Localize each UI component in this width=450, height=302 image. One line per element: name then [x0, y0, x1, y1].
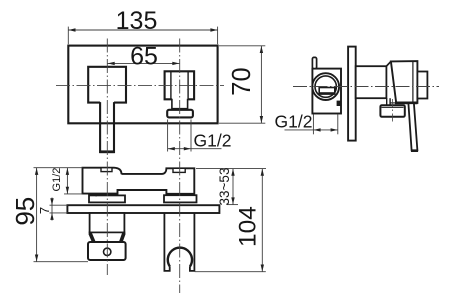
- handle trapezoid neck: [90, 233, 125, 243]
- dimension G1/2 front outlet: [168, 120, 222, 152]
- dimension G1/2 bottom inlet: [64, 168, 83, 194]
- neck dark side left: [90, 233, 94, 242]
- wall plate front rectangle: [68, 46, 217, 124]
- centerline vertical outlet axis: [179, 39, 181, 294]
- dimension G1/2 side: [285, 115, 338, 135]
- svg-text:7: 7: [37, 207, 52, 214]
- shower holder right wall: [190, 213, 195, 271]
- cartridge ring outer: [312, 73, 339, 100]
- svg-text:135: 135: [116, 7, 158, 35]
- wall plate bottom view: [67, 205, 219, 213]
- dimension 65: [108, 62, 180, 64]
- dimension 104: [195, 169, 266, 272]
- lever side thick foot: [411, 150, 418, 152]
- dimension 33~53: [196, 169, 266, 205]
- nut centerline: [392, 99, 394, 124]
- left inlet notch: [101, 168, 112, 172]
- dimension 70: [219, 46, 265, 123]
- svg-text:95: 95: [10, 197, 40, 226]
- neck dark side right: [121, 233, 124, 242]
- cartridge ring inner: [315, 76, 336, 97]
- handle grip: [88, 242, 126, 260]
- svg-text:65: 65: [130, 43, 158, 71]
- escutcheon plate side: [348, 47, 356, 141]
- shower outlet nut side: [380, 105, 404, 117]
- right flange: [164, 195, 197, 202]
- svg-text:70: 70: [228, 67, 256, 95]
- outlet inner line left: [170, 72, 172, 99]
- lever side: [408, 103, 417, 150]
- limiter block in cartridge: [319, 88, 335, 94]
- centerline vertical handle axis: [106, 39, 108, 276]
- dimension 95: [34, 168, 89, 262]
- handle sleeve: [90, 213, 125, 233]
- dimension 7 plate thickness: [50, 198, 68, 221]
- svg-text:G1/2: G1/2: [51, 168, 63, 192]
- seal black square: [337, 101, 342, 106]
- right inlet notch: [173, 168, 185, 172]
- shower body cylinder: [356, 66, 387, 98]
- shower holder left wall: [164, 213, 169, 271]
- hub thick base: [395, 102, 417, 105]
- centerline horizontal side view: [293, 86, 439, 88]
- svg-text:G1/2: G1/2: [275, 112, 313, 132]
- chamfer line cylinder to hub: [386, 61, 391, 66]
- hub end cap: [417, 72, 427, 99]
- body bottom step wedge: [93, 194, 97, 197]
- nut inner line: [382, 106, 404, 108]
- shower holder C ring: [168, 248, 192, 267]
- outlet square with collar opening: [165, 71, 195, 99]
- handle square with lever neck: [88, 67, 126, 103]
- centerline horizontal front view: [56, 84, 224, 86]
- grip screw hole: [104, 248, 111, 255]
- left flange: [89, 195, 125, 202]
- handle lever front: [100, 102, 114, 152]
- handle hub wedge: [391, 61, 418, 103]
- dimension 135: [68, 27, 217, 45]
- shower outlet connector lines: [386, 98, 388, 105]
- svg-text:104: 104: [234, 206, 261, 247]
- hub facet line: [412, 61, 414, 103]
- outlet inner line right: [187, 72, 189, 99]
- outlet step line: [390, 102, 401, 104]
- outlet collar: [172, 99, 188, 109]
- svg-text:G1/2: G1/2: [194, 130, 232, 150]
- body silhouette bottom view: [83, 168, 195, 194]
- svg-text:33~53: 33~53: [217, 168, 232, 206]
- body top tab: [312, 57, 316, 68]
- outlet nut: [167, 110, 193, 118]
- valve body side: [312, 69, 341, 114]
- limiter thick base: [319, 92, 336, 95]
- lever tip thick end: [99, 150, 115, 153]
